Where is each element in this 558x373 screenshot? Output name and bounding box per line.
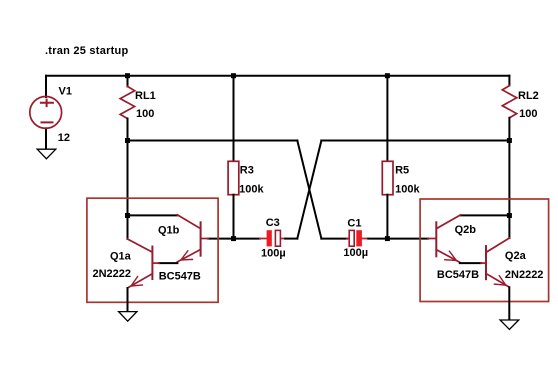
wire right vertical to Q2 (508, 141, 510, 239)
ground below Q1a (119, 312, 137, 322)
svg-text:100: 100 (136, 108, 154, 120)
resistor RL1 (120, 86, 134, 118)
wire V1 bottom stem (45, 128, 47, 149)
svg-text:RL2: RL2 (518, 90, 539, 102)
svg-text:100k: 100k (239, 184, 264, 196)
junction RL2 bottom (507, 138, 512, 143)
wire left mid rail (128, 140, 298, 142)
junction Q2 collector node (507, 213, 512, 218)
capacitor C3 (260, 230, 285, 246)
wire V1 top stem (45, 76, 47, 97)
wire R3 top (233, 76, 235, 162)
svg-text:Q2b: Q2b (455, 224, 477, 236)
group box Q2 pair (420, 199, 548, 302)
svg-text:R3: R3 (240, 164, 254, 176)
wire R3 bottom (233, 195, 235, 239)
svg-text:C1: C1 (347, 218, 361, 230)
svg-text:RL1: RL1 (135, 90, 156, 102)
wire Q1b base to C3 (208, 238, 259, 240)
junction R5 top (385, 73, 390, 78)
wire RL1 top stem (127, 76, 129, 87)
svg-text:2N2222: 2N2222 (505, 269, 544, 281)
transistor Q1a (128, 239, 159, 288)
junction Q1 collector node (125, 213, 130, 218)
wire left vertical to Q1 (127, 141, 129, 240)
svg-text:12: 12 (58, 132, 70, 144)
resistor RL2 (502, 86, 516, 118)
wire cross diagonal D1 (297, 141, 321, 239)
svg-text:100k: 100k (395, 184, 420, 196)
wire RL1 bottom stem (127, 119, 129, 141)
group box Q1 pair (87, 198, 218, 302)
wire C1 right to Q2b base (368, 238, 428, 240)
wire RL2 top stem (508, 76, 510, 86)
svg-text:C3: C3 (266, 217, 280, 229)
transistor Q2b (428, 215, 461, 262)
wire C3 right (285, 238, 297, 240)
wire R5 bottom (386, 195, 388, 239)
ground below Q2a (500, 320, 519, 329)
wire C1 left (321, 238, 347, 240)
svg-text:R5: R5 (395, 164, 409, 176)
junction R3 bottom (231, 236, 236, 241)
svg-text:Q1b: Q1b (158, 225, 180, 237)
wire top rail (46, 75, 509, 77)
svg-text:100µ: 100µ (343, 247, 368, 259)
transistor Q2a (481, 238, 509, 287)
svg-text:.tran 25 startup: .tran 25 startup (45, 45, 128, 57)
wire cross diagonal D2 (297, 141, 321, 239)
svg-text:Q2a: Q2a (505, 250, 527, 262)
wire Q1b emitter to Q1a base (159, 262, 178, 264)
svg-text:100: 100 (519, 108, 537, 120)
wire Q1 collectors link (128, 214, 178, 216)
wire Q2 collectors link (461, 214, 510, 216)
capacitor C1 (347, 230, 368, 246)
wire right mid rail (321, 140, 509, 142)
svg-text:BC547B: BC547B (437, 269, 479, 281)
svg-text:BC547B: BC547B (159, 270, 201, 282)
junction RL1 top (125, 73, 130, 78)
junction RL1 bottom (125, 138, 130, 143)
ground below V1 (37, 149, 56, 159)
svg-text:V1: V1 (59, 85, 72, 97)
wire R5 top (386, 76, 388, 162)
voltage source V1 (30, 97, 62, 129)
wire Q2b emitter to Q2a base (460, 262, 481, 264)
wire Q1a emitter to ground (127, 288, 129, 312)
transistor Q1b (177, 215, 208, 262)
wire RL2 bottom stem (508, 118, 510, 141)
junction R3 top (231, 73, 236, 78)
resistor R3 (228, 161, 239, 194)
svg-text:Q1a: Q1a (110, 250, 132, 262)
svg-text:2N2222: 2N2222 (93, 268, 132, 280)
junction R5 bottom (385, 236, 390, 241)
wire Q2a emitter to ground (508, 287, 510, 320)
resistor R5 (382, 161, 393, 194)
svg-text:100µ: 100µ (261, 248, 286, 260)
